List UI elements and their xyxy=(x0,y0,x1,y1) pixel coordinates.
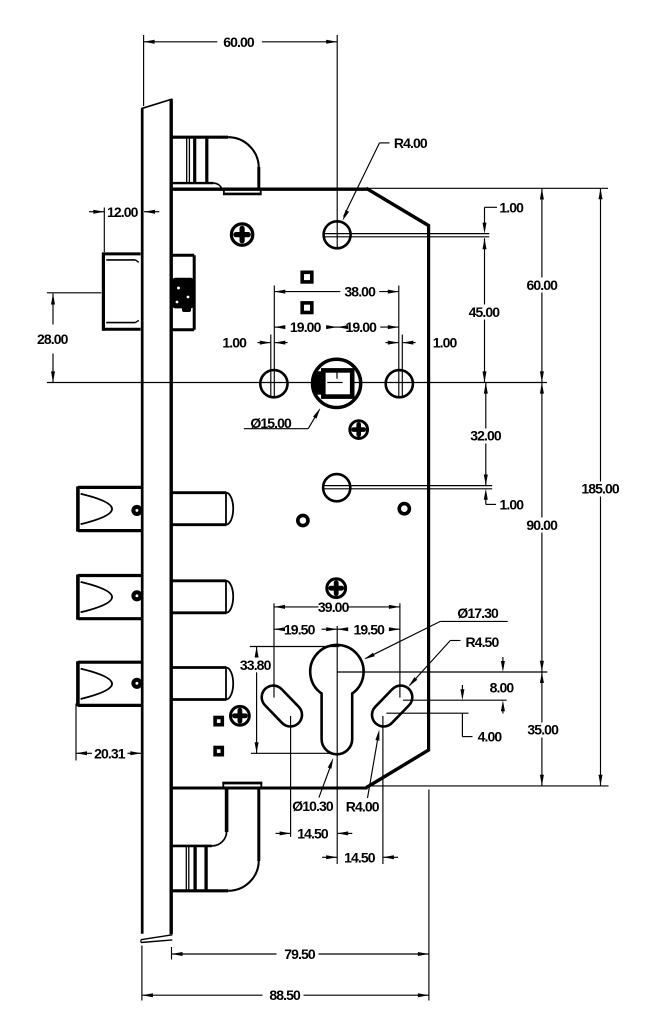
dim 60.00 top xyxy=(144,34,338,106)
dim 33.80 xyxy=(240,647,339,754)
svg-text:14.50: 14.50 xyxy=(344,849,376,865)
dim 1.00 lower right xyxy=(484,489,524,513)
svg-text:79.50: 79.50 xyxy=(284,946,316,962)
deadbolt 1 outer xyxy=(78,486,142,531)
bottom edge ext line xyxy=(367,785,609,787)
deadbolt 3 inner bar xyxy=(171,668,233,700)
leader R4.00 bottom xyxy=(346,730,380,815)
hole lower xyxy=(323,474,350,501)
svg-text:8.00: 8.00 xyxy=(490,680,515,696)
screw bottom-left xyxy=(231,706,250,725)
svg-text:20.31: 20.31 xyxy=(94,745,126,761)
svg-text:38.00: 38.00 xyxy=(344,284,376,300)
deadbolt 2 inner bar xyxy=(171,581,233,613)
leader D17.30 xyxy=(364,605,508,659)
dim 12.00 xyxy=(89,204,159,252)
dim 28.00 xyxy=(37,293,101,383)
deadbolt 2 outer xyxy=(78,575,142,620)
svg-text:90.00: 90.00 xyxy=(526,517,558,533)
svg-text:Ø10.30: Ø10.30 xyxy=(292,798,334,814)
leader D10.30 xyxy=(292,758,334,814)
svg-text:19.50: 19.50 xyxy=(354,621,386,637)
svg-text:1.00: 1.00 xyxy=(499,496,524,512)
dim 19.50 pair xyxy=(274,621,400,637)
hole top R4 xyxy=(324,221,351,248)
dim 45.00 xyxy=(469,238,501,382)
dim 20.31 xyxy=(76,704,141,762)
svg-text:Ø17.30: Ø17.30 xyxy=(457,605,499,621)
hole left xyxy=(260,370,287,397)
svg-text:28.00: 28.00 xyxy=(37,331,69,347)
cylinder keyhole xyxy=(310,645,363,754)
deadlock snib outer xyxy=(103,252,140,330)
screw lower xyxy=(327,579,346,598)
svg-text:19.00: 19.00 xyxy=(290,319,322,335)
svg-text:185.00: 185.00 xyxy=(581,481,620,497)
svg-text:14.50: 14.50 xyxy=(297,825,329,841)
faceplate xyxy=(141,99,173,943)
follower square xyxy=(323,370,352,396)
square hole B xyxy=(302,303,312,313)
dim 14.50 first xyxy=(276,716,353,842)
line 8mm xyxy=(403,699,507,701)
svg-text:39.00: 39.00 xyxy=(318,599,350,615)
dim 185.00 xyxy=(581,188,620,786)
oval slot left xyxy=(273,697,290,715)
spring xyxy=(172,278,194,312)
svg-text:R4.50: R4.50 xyxy=(465,634,499,650)
follower circle xyxy=(313,359,361,407)
leader D15.00 xyxy=(244,408,320,431)
line pair lower hole xyxy=(323,486,493,489)
svg-text:33.80: 33.80 xyxy=(240,657,272,673)
leader R4.50 xyxy=(409,634,500,687)
oval slot right xyxy=(384,697,401,715)
svg-text:1.00: 1.00 xyxy=(499,199,524,215)
latchbolt bottom xyxy=(171,783,262,891)
svg-text:45.00: 45.00 xyxy=(469,304,501,320)
svg-text:1.00: 1.00 xyxy=(433,335,458,351)
dim 39.00 xyxy=(274,599,400,698)
svg-text:88.50: 88.50 xyxy=(269,987,301,1003)
dim 60.00 right xyxy=(366,188,608,382)
snib spring box xyxy=(172,255,194,330)
dim 38.00 xyxy=(274,284,399,398)
svg-text:1.00: 1.00 xyxy=(222,335,247,351)
dim 90.00 xyxy=(526,383,558,672)
horizontal centerline xyxy=(47,382,547,384)
screw top xyxy=(231,224,252,245)
ring hole right xyxy=(399,504,409,514)
dim 1.00 top right xyxy=(483,199,525,233)
follower wedge xyxy=(313,371,323,394)
square hole C xyxy=(215,718,222,725)
dim 88.50 xyxy=(142,946,429,1004)
svg-text:32.00: 32.00 xyxy=(470,428,502,444)
dim 32.00 xyxy=(470,383,502,486)
svg-text:35.00: 35.00 xyxy=(527,722,559,738)
svg-text:19.50: 19.50 xyxy=(284,621,316,637)
square hole A xyxy=(302,272,312,282)
dim 1.00 right hole xyxy=(386,335,458,398)
dim 8.00 xyxy=(490,657,515,714)
dim 35.00 xyxy=(527,672,559,786)
dim 14.50 second xyxy=(322,716,398,865)
dim 1.00 left hole xyxy=(222,335,287,398)
svg-text:R4.00: R4.00 xyxy=(394,135,428,151)
hole right xyxy=(386,370,413,397)
lock body outline xyxy=(171,188,429,788)
screw mid xyxy=(350,421,368,439)
ring hole left xyxy=(298,515,308,525)
latchbolt top xyxy=(171,137,262,194)
dim 19.00 pair xyxy=(274,319,399,335)
keyhole center ext line xyxy=(337,671,547,673)
follower center marks xyxy=(327,369,342,383)
svg-text:R4.00: R4.00 xyxy=(346,799,380,815)
vertical centerline keyhole xyxy=(336,626,338,864)
vertical centerline top xyxy=(336,35,338,249)
svg-text:19.00: 19.00 xyxy=(346,319,378,335)
deadbolt 1 inner bar xyxy=(171,493,233,525)
svg-text:4.00: 4.00 xyxy=(478,729,503,745)
dim 79.50 xyxy=(172,790,429,1001)
svg-text:60.00: 60.00 xyxy=(223,34,255,50)
svg-text:60.00: 60.00 xyxy=(527,277,559,293)
leader R4.00 top xyxy=(343,135,428,221)
line 4mm xyxy=(386,712,468,714)
dim 4.00 xyxy=(460,685,502,745)
svg-text:12.00: 12.00 xyxy=(107,204,139,220)
deadbolt 3 outer xyxy=(78,661,142,706)
square hole D xyxy=(215,748,222,755)
line pair top hole xyxy=(323,234,490,237)
